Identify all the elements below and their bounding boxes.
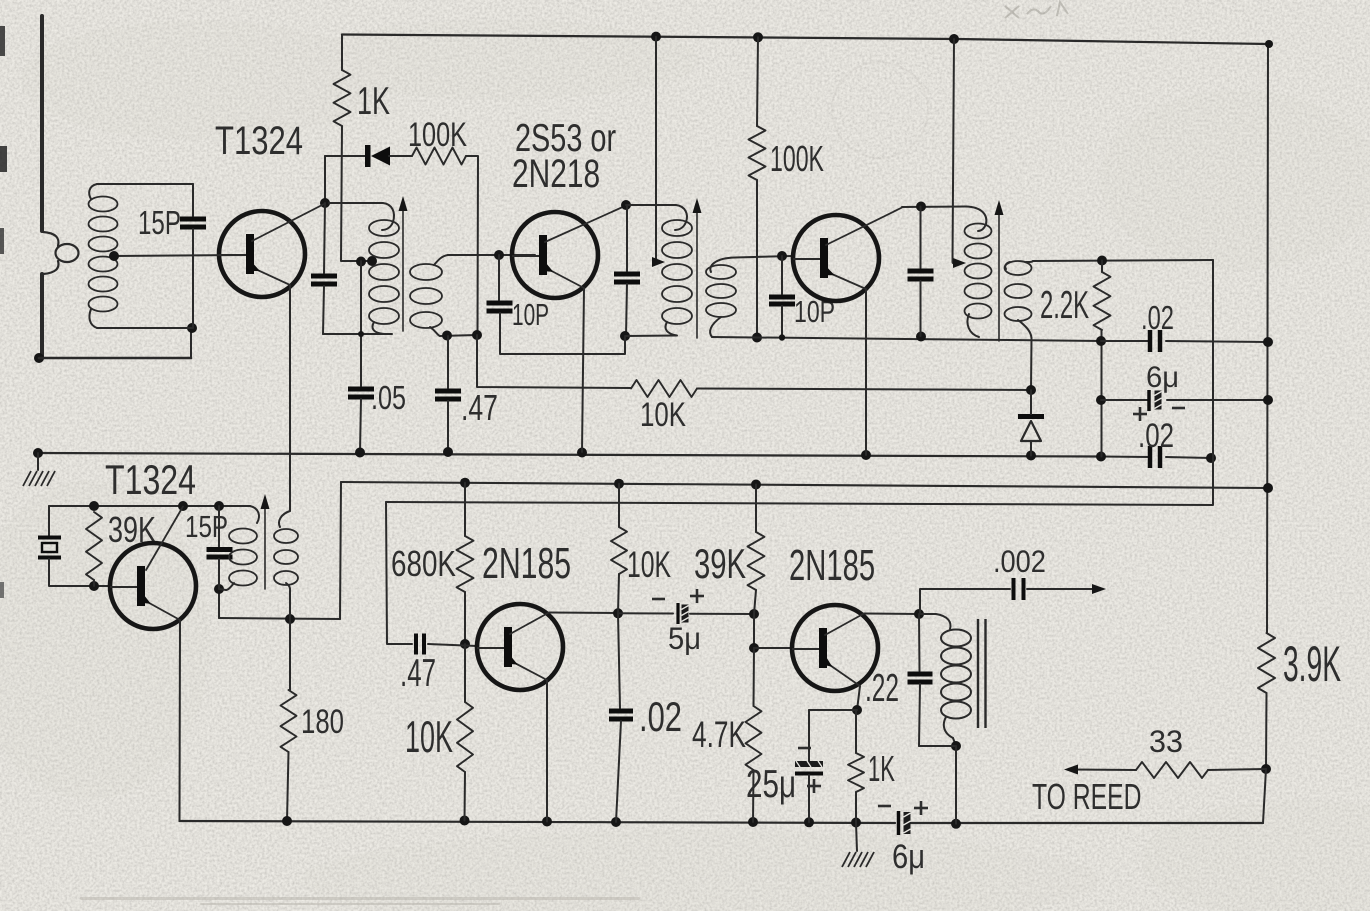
svg-text:1K: 1K: [357, 80, 390, 123]
svg-text:680K: 680K: [391, 544, 456, 584]
svg-text:.002: .002: [993, 544, 1046, 580]
svg-text:180: 180: [301, 702, 344, 741]
svg-text:.22: .22: [865, 666, 899, 709]
svg-text:T1324: T1324: [105, 456, 196, 503]
svg-text:6μ: 6μ: [1146, 362, 1179, 394]
svg-text:2N185: 2N185: [482, 539, 571, 588]
svg-text:5μ: 5μ: [668, 621, 701, 657]
svg-text:100K: 100K: [408, 116, 467, 154]
svg-text:6μ: 6μ: [892, 837, 925, 876]
svg-text:39K: 39K: [694, 540, 746, 587]
svg-text:10P: 10P: [512, 297, 549, 332]
svg-text:33: 33: [1149, 723, 1183, 759]
svg-text:.47: .47: [400, 652, 436, 696]
svg-text:.02: .02: [1138, 416, 1174, 455]
svg-text:.47: .47: [461, 387, 498, 428]
svg-text:TO REED: TO REED: [1032, 776, 1141, 817]
svg-text:15P: 15P: [138, 205, 181, 242]
svg-text:2N185: 2N185: [789, 541, 875, 589]
svg-text:T1324: T1324: [215, 117, 303, 163]
svg-text:.02: .02: [639, 694, 682, 741]
svg-text:.02: .02: [1141, 300, 1174, 337]
svg-text:10K: 10K: [627, 543, 671, 585]
svg-text:2N218: 2N218: [512, 151, 600, 196]
svg-text:4.7K: 4.7K: [692, 713, 746, 755]
svg-text:2.2K: 2.2K: [1040, 283, 1089, 326]
svg-text:1K: 1K: [868, 750, 895, 790]
svg-text:15P: 15P: [185, 509, 228, 543]
svg-text:10K: 10K: [640, 395, 686, 434]
svg-text:25μ: 25μ: [746, 763, 796, 806]
svg-text:10K: 10K: [405, 712, 453, 762]
svg-text:.05: .05: [371, 380, 406, 417]
svg-text:100K: 100K: [770, 140, 824, 179]
svg-text:3.9K: 3.9K: [1283, 635, 1341, 692]
